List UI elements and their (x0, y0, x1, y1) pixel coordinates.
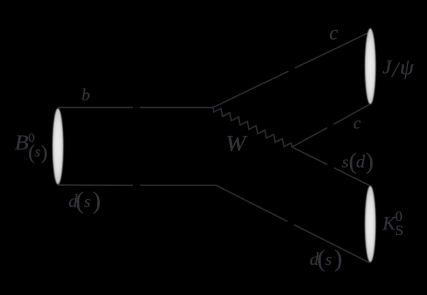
svg-text:W: W (226, 130, 248, 155)
svg-text:S: S (395, 223, 403, 239)
svg-text:J: J (383, 56, 393, 78)
svg-text:c: c (353, 114, 361, 133)
svg-text:): ) (93, 188, 101, 214)
svg-text:s: s (84, 192, 91, 211)
svg-text:s: s (35, 144, 41, 160)
svg-text:b: b (82, 86, 91, 105)
svg-text:d: d (356, 151, 366, 171)
svg-text:B: B (15, 130, 29, 154)
svg-text:): ) (41, 142, 48, 164)
svg-text:): ) (366, 149, 374, 174)
svg-text:): ) (334, 247, 342, 273)
svg-text:s: s (325, 250, 332, 269)
svg-text:(: ( (317, 247, 325, 273)
svg-text:ψ: ψ (400, 55, 414, 80)
svg-text:c: c (329, 22, 338, 44)
svg-text:(: ( (76, 188, 84, 214)
